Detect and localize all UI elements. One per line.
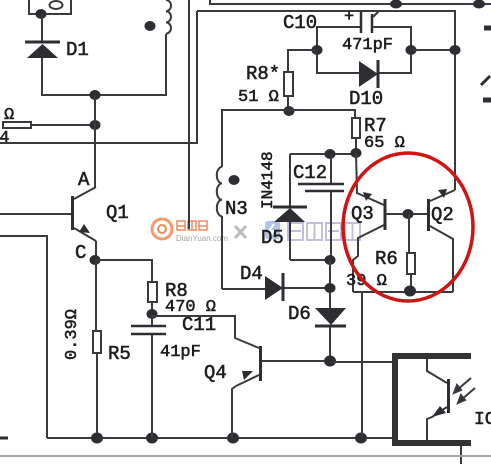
wire D5 to column <box>290 259 330 261</box>
watermark blue icon <box>265 221 280 239</box>
svg-text:41pF: 41pF <box>160 343 201 362</box>
watermark blue text blocks <box>288 223 360 240</box>
transistor Q3 <box>351 153 407 292</box>
wire R8* down <box>287 96 289 111</box>
inductor winding top-left <box>166 0 171 95</box>
svg-text:IC: IC <box>474 410 491 430</box>
wire R5 to rail <box>96 353 98 438</box>
junction D1 node <box>90 90 101 100</box>
wire Q4 emitter to rail <box>232 386 236 438</box>
diode D6 <box>288 303 346 326</box>
svg-text:D5: D5 <box>261 227 284 249</box>
svg-text:+: + <box>344 8 354 27</box>
second top wire <box>197 11 455 190</box>
wire to R8 <box>95 260 152 282</box>
svg-text:IN4148: IN4148 <box>259 151 277 209</box>
wire left branch <box>0 236 47 438</box>
svg-text:R8*: R8* <box>246 63 280 85</box>
svg-text:Q3: Q3 <box>351 203 374 225</box>
junction at connector box <box>36 9 47 19</box>
transistor Q1 <box>0 169 129 241</box>
svg-text:Q1: Q1 <box>106 202 129 224</box>
wire Q4 base <box>152 316 259 348</box>
wire D6 down <box>329 326 331 361</box>
diode D4 <box>222 263 330 301</box>
wire R4 to node <box>31 124 95 126</box>
junction Q2/Q3 bases <box>403 209 414 219</box>
svg-text:Q2: Q2 <box>431 204 454 226</box>
capacitor C10 <box>283 8 393 55</box>
junction R4 node <box>90 120 101 130</box>
junctions on ground rail <box>91 433 103 444</box>
resistor R6 <box>346 248 415 291</box>
right edge component marks <box>481 28 491 100</box>
diode D5 <box>259 151 307 260</box>
resistor R8* <box>238 63 293 107</box>
transistor Q2 <box>408 189 455 292</box>
C10/D10 loop <box>317 27 361 73</box>
wire node to coil column <box>95 94 167 96</box>
svg-text:R5: R5 <box>108 343 131 365</box>
wire R7 down <box>355 138 357 153</box>
transistor Q4 <box>204 346 330 386</box>
capacitor C11 <box>131 314 216 438</box>
capacitor C12 <box>293 154 344 260</box>
column wire <box>329 260 331 308</box>
wire loop to vertical <box>411 49 455 51</box>
rail stub left edge <box>0 437 8 440</box>
svg-text:D6: D6 <box>288 303 311 325</box>
red ellipse highlight <box>343 153 473 301</box>
light arrows <box>454 378 475 403</box>
wire to R8* <box>288 50 317 72</box>
svg-text:C12: C12 <box>293 162 327 184</box>
watermark dianyuan logo <box>152 219 228 243</box>
resistor R4 <box>0 106 31 148</box>
svg-text:Q4: Q4 <box>204 362 227 384</box>
svg-text:DianYuan.com: DianYuan.com <box>176 234 228 243</box>
wire D1 to node <box>42 58 95 95</box>
svg-text:471pF: 471pF <box>342 36 393 55</box>
svg-text:51 Ω: 51 Ω <box>238 88 279 107</box>
svg-text:Ω: Ω <box>4 106 14 125</box>
svg-text:A: A <box>78 169 90 191</box>
diode D10 <box>349 60 383 110</box>
svg-text:N3: N3 <box>225 198 248 220</box>
svg-text:D10: D10 <box>349 88 383 110</box>
top rail wire <box>210 0 491 4</box>
svg-text:D4: D4 <box>240 263 263 285</box>
junctions C10/D10 loop nodes <box>312 45 323 55</box>
wire box to D1 <box>41 14 43 42</box>
bus wire left <box>0 11 197 143</box>
bottom border line <box>0 455 491 457</box>
wire emitter node to R6 bottom <box>353 291 453 293</box>
svg-text:R4: R4 <box>0 129 9 148</box>
wire emitter down <box>95 241 97 260</box>
junction node C <box>90 255 101 265</box>
wire R6 down <box>410 274 412 291</box>
svg-text:65 Ω: 65 Ω <box>364 134 405 153</box>
resistor R8 <box>148 280 216 317</box>
wire down to R5 <box>95 260 97 331</box>
wire to IC <box>330 361 394 363</box>
svg-text:C11: C11 <box>182 314 216 336</box>
phototransistor <box>427 359 449 441</box>
svg-text:0.39Ω: 0.39Ω <box>63 309 82 360</box>
resistor R5 <box>63 309 131 365</box>
diode D1 <box>25 39 89 61</box>
wire bases to R6 <box>408 214 410 253</box>
connector box top-left <box>29 0 71 14</box>
svg-text:C10: C10 <box>283 12 317 34</box>
svg-text:C: C <box>75 242 86 264</box>
watermark x <box>235 226 246 238</box>
svg-text:D1: D1 <box>66 39 89 61</box>
wire R8 to node <box>151 302 153 314</box>
wire transformer primary lead <box>188 0 190 229</box>
IC optocoupler box <box>392 353 471 446</box>
ground rail <box>47 437 394 439</box>
winding N3 loop top side <box>221 110 355 118</box>
wire node down to rail <box>361 292 363 438</box>
wire collector column <box>94 95 96 187</box>
winding N3 <box>217 110 222 289</box>
resistor R7 <box>352 115 405 153</box>
wire node R7/D5/C12 <box>290 153 356 155</box>
winding polarity dot <box>145 21 156 31</box>
svg-text:R6: R6 <box>375 248 398 270</box>
IC pin bottom right <box>460 446 462 464</box>
